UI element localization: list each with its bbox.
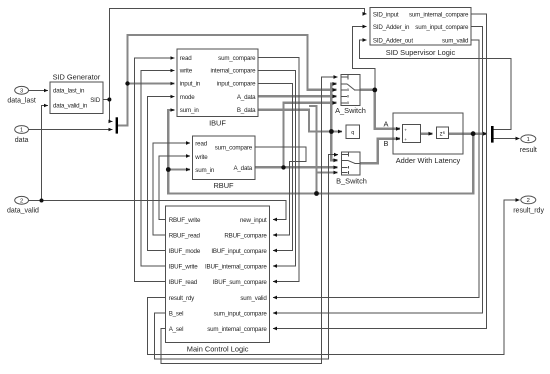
svg-text:+: + [404, 128, 407, 133]
svg-text:IBUF_write: IBUF_write [169, 264, 199, 271]
svg-text:1: 1 [20, 128, 23, 134]
svg-text:internal_compare: internal_compare [210, 68, 256, 75]
svg-text:IBUF: IBUF [209, 118, 226, 127]
svg-text:SID_Adder_in: SID_Adder_in [373, 24, 410, 31]
svg-text:3: 3 [20, 88, 23, 94]
svg-text:Adder With Latency: Adder With Latency [396, 156, 461, 165]
svg-text:input_compare: input_compare [217, 81, 256, 88]
svg-text:write: write [179, 68, 193, 75]
svg-text:A_data: A_data [233, 165, 252, 172]
svg-text:sum_compare: sum_compare [215, 145, 253, 152]
svg-text:IBUF_sum_compare: IBUF_sum_compare [213, 279, 268, 286]
svg-text:sum_internal_compare: sum_internal_compare [409, 11, 469, 18]
svg-text:A_Switch: A_Switch [335, 106, 366, 115]
svg-text:A_sel: A_sel [169, 326, 184, 333]
svg-text:RBUF_read: RBUF_read [169, 232, 201, 239]
svg-text:IBUF_read: IBUF_read [169, 279, 198, 286]
svg-text:RBUF_write: RBUF_write [169, 217, 201, 224]
svg-text:sum_internal_compare: sum_internal_compare [207, 326, 267, 333]
svg-text:data_last: data_last [7, 98, 35, 105]
svg-text:IBUF_internal_compare: IBUF_internal_compare [205, 264, 267, 271]
svg-text:sum_input_compare: sum_input_compare [214, 310, 268, 317]
svg-text:result_rdy: result_rdy [169, 295, 195, 302]
svg-text:data_last_in: data_last_in [53, 88, 85, 95]
svg-text:+: + [404, 137, 407, 142]
svg-text:data_valid_in: data_valid_in [53, 103, 88, 110]
svg-text:B_data: B_data [237, 107, 256, 114]
svg-text:sum_valid: sum_valid [240, 295, 267, 302]
svg-text:2: 2 [527, 198, 530, 204]
svg-text:A: A [384, 120, 389, 129]
svg-text:z⁶: z⁶ [440, 131, 446, 138]
svg-text:sum_in: sum_in [195, 167, 215, 174]
svg-text:mode: mode [180, 94, 195, 101]
svg-text:SID_Adder_out: SID_Adder_out [373, 38, 413, 45]
svg-text:sum_in: sum_in [180, 107, 200, 114]
svg-text:read: read [195, 140, 207, 147]
svg-text:sum_valid: sum_valid [442, 38, 469, 45]
svg-text:SID Supervisor Logic: SID Supervisor Logic [386, 48, 456, 57]
svg-text:sum_input_compare: sum_input_compare [415, 24, 469, 31]
svg-text:RBUF: RBUF [213, 181, 234, 190]
svg-text:result_rdy: result_rdy [513, 207, 544, 214]
svg-text:B_Switch: B_Switch [336, 176, 367, 185]
svg-text:write: write [194, 154, 208, 161]
svg-text:data_valid: data_valid [7, 207, 39, 214]
svg-text:q: q [351, 130, 354, 136]
svg-text:B_sel: B_sel [169, 310, 184, 317]
svg-text:SID: SID [90, 97, 100, 104]
svg-text:1: 1 [527, 137, 530, 143]
svg-text:RBUF_compare: RBUF_compare [224, 232, 267, 239]
svg-text:result: result [520, 147, 537, 154]
svg-text:2: 2 [20, 198, 23, 204]
svg-text:read: read [180, 55, 192, 62]
svg-text:data: data [15, 137, 29, 144]
svg-text:Main Control Logic: Main Control Logic [187, 345, 249, 354]
svg-text:input_in: input_in [180, 81, 201, 88]
svg-text:sum_compare: sum_compare [218, 55, 256, 62]
svg-text:B: B [384, 139, 389, 148]
svg-text:A_data: A_data [237, 94, 256, 101]
svg-text:SID_input: SID_input [373, 11, 399, 18]
svg-text:new_input: new_input [240, 217, 267, 224]
svg-text:IBUF_input_compare: IBUF_input_compare [211, 248, 267, 255]
svg-text:SID Generator: SID Generator [53, 73, 101, 82]
svg-text:IBUF_mode: IBUF_mode [169, 248, 201, 255]
